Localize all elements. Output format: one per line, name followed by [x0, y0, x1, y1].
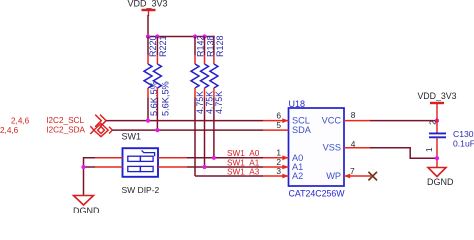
svg-text:VDD_3V3: VDD_3V3	[417, 91, 456, 101]
svg-text:2,4,6: 2,4,6	[11, 117, 30, 126]
junction rail/R138	[202, 34, 206, 38]
no-connect X on WP	[368, 172, 377, 181]
op-amp U18 body (EEPROM CAT24C256W)	[289, 108, 345, 186]
junction R138/SW1_A1	[202, 165, 206, 169]
svg-text:5.6K,5%: 5.6K,5%	[161, 81, 171, 116]
svg-text:A2: A2	[292, 171, 303, 181]
wire R128 lead down to SW1_A0 line	[213, 98, 215, 158]
U18 pin 2 A1	[263, 157, 303, 172]
U18 pin 3 A2	[263, 166, 303, 181]
wire I2C2_SDA to U18 pin 5	[113, 129, 264, 131]
svg-text:6: 6	[276, 110, 281, 120]
junction R221/SDA	[155, 128, 159, 132]
resistor R221 5.6K,5%	[153, 35, 170, 130]
U18 pin 8 VCC	[322, 110, 370, 125]
svg-text:DGND: DGND	[427, 177, 454, 187]
svg-text:SCL: SCL	[292, 116, 310, 126]
svg-text:VCC: VCC	[322, 116, 342, 126]
resistor R142 4.75K	[191, 35, 205, 114]
wire R138 lead down to SW1_A1 line	[204, 98, 206, 168]
svg-text:I2C2_SCL: I2C2_SCL	[46, 116, 84, 125]
U18 pin 7 WP	[326, 166, 371, 181]
wire capacitor to ground	[436, 137, 438, 167]
junction VCC/power	[435, 119, 439, 123]
svg-text:VSS: VSS	[323, 143, 341, 153]
svg-text:1: 1	[425, 147, 434, 152]
junction rail/R142	[193, 34, 197, 38]
svg-text:3: 3	[276, 166, 281, 176]
port symbol I2C2_SCL (double chevron)	[95, 115, 106, 127]
junction VSS/cap-gnd	[435, 156, 439, 160]
capacitor C130 0.1uF	[425, 120, 474, 152]
svg-text:SW1_A0: SW1_A0	[227, 149, 260, 158]
junction R128/SW1_A0	[212, 156, 216, 160]
junction switch-gnd	[81, 165, 85, 169]
svg-text:7: 7	[350, 166, 355, 176]
svg-text:SW1_A3: SW1_A3	[227, 168, 260, 177]
wire SW1_A1 net	[187, 166, 263, 168]
power VDD_3V3 (right)	[417, 91, 456, 133]
junction R220/SCL	[146, 119, 150, 123]
svg-text:SW DIP-2: SW DIP-2	[122, 185, 160, 195]
svg-text:2: 2	[428, 120, 437, 125]
power VDD_3V3 (left)	[127, 0, 167, 16]
wire VSS to ground node	[370, 148, 437, 158]
resistor R220 5.6K,5%	[144, 35, 159, 120]
svg-text:DGND: DGND	[73, 206, 100, 213]
wire I2C2_SCL to U18 pin 6	[106, 120, 263, 122]
switch pin 2 (left bottom)	[95, 166, 123, 168]
resistor R138 4.75K	[201, 35, 216, 114]
junction rail/R221	[155, 34, 159, 38]
svg-text:4: 4	[351, 139, 356, 149]
wire SW1_A0 net	[187, 157, 263, 159]
wire switch left to ground	[84, 158, 96, 196]
svg-text:SDA: SDA	[292, 125, 312, 135]
svg-text:SW1_A1: SW1_A1	[227, 159, 260, 168]
ground DGND (left)	[73, 196, 100, 217]
svg-text:CAT24C256W: CAT24C256W	[289, 188, 346, 198]
svg-text:R221: R221	[158, 35, 168, 57]
svg-text:8: 8	[351, 110, 356, 120]
svg-text:2,4,6: 2,4,6	[0, 126, 19, 135]
port symbol I2C2_SDA (bidirectional diamond)	[90, 124, 112, 137]
svg-text:I2C2_SDA: I2C2_SDA	[46, 126, 85, 135]
wire VDD rail from power to resistors	[147, 15, 214, 37]
svg-text:R128: R128	[215, 35, 225, 57]
U18 pin 1 A0	[263, 148, 303, 163]
U18 pin 6 SCL	[263, 110, 310, 125]
svg-text:4.75K: 4.75K	[195, 91, 205, 114]
wire R142 lead down to SW1_A3 line	[194, 98, 196, 177]
wire SW1_A3 net	[195, 175, 263, 177]
wire VCC to power	[370, 120, 437, 122]
U18 pin 4 VSS	[323, 139, 370, 153]
junction rail/R220	[146, 34, 150, 38]
svg-text:SW1: SW1	[122, 131, 142, 141]
switch SW1 SW DIP-2 body	[123, 148, 159, 177]
svg-text:4.75K: 4.75K	[214, 91, 224, 114]
switch pin 1 (left top)	[95, 157, 123, 159]
resistor R128 4.75K	[210, 35, 225, 114]
ground DGND (right)	[427, 168, 454, 187]
svg-text:5: 5	[276, 120, 281, 130]
svg-text:0.1uF: 0.1uF	[453, 138, 474, 148]
svg-text:VDD_3V3: VDD_3V3	[127, 0, 167, 9]
switch pin bottom right	[158, 166, 187, 168]
U18 pin 5 SDA	[263, 120, 312, 135]
switch pin top right	[158, 157, 187, 159]
svg-text:WP: WP	[326, 171, 341, 181]
